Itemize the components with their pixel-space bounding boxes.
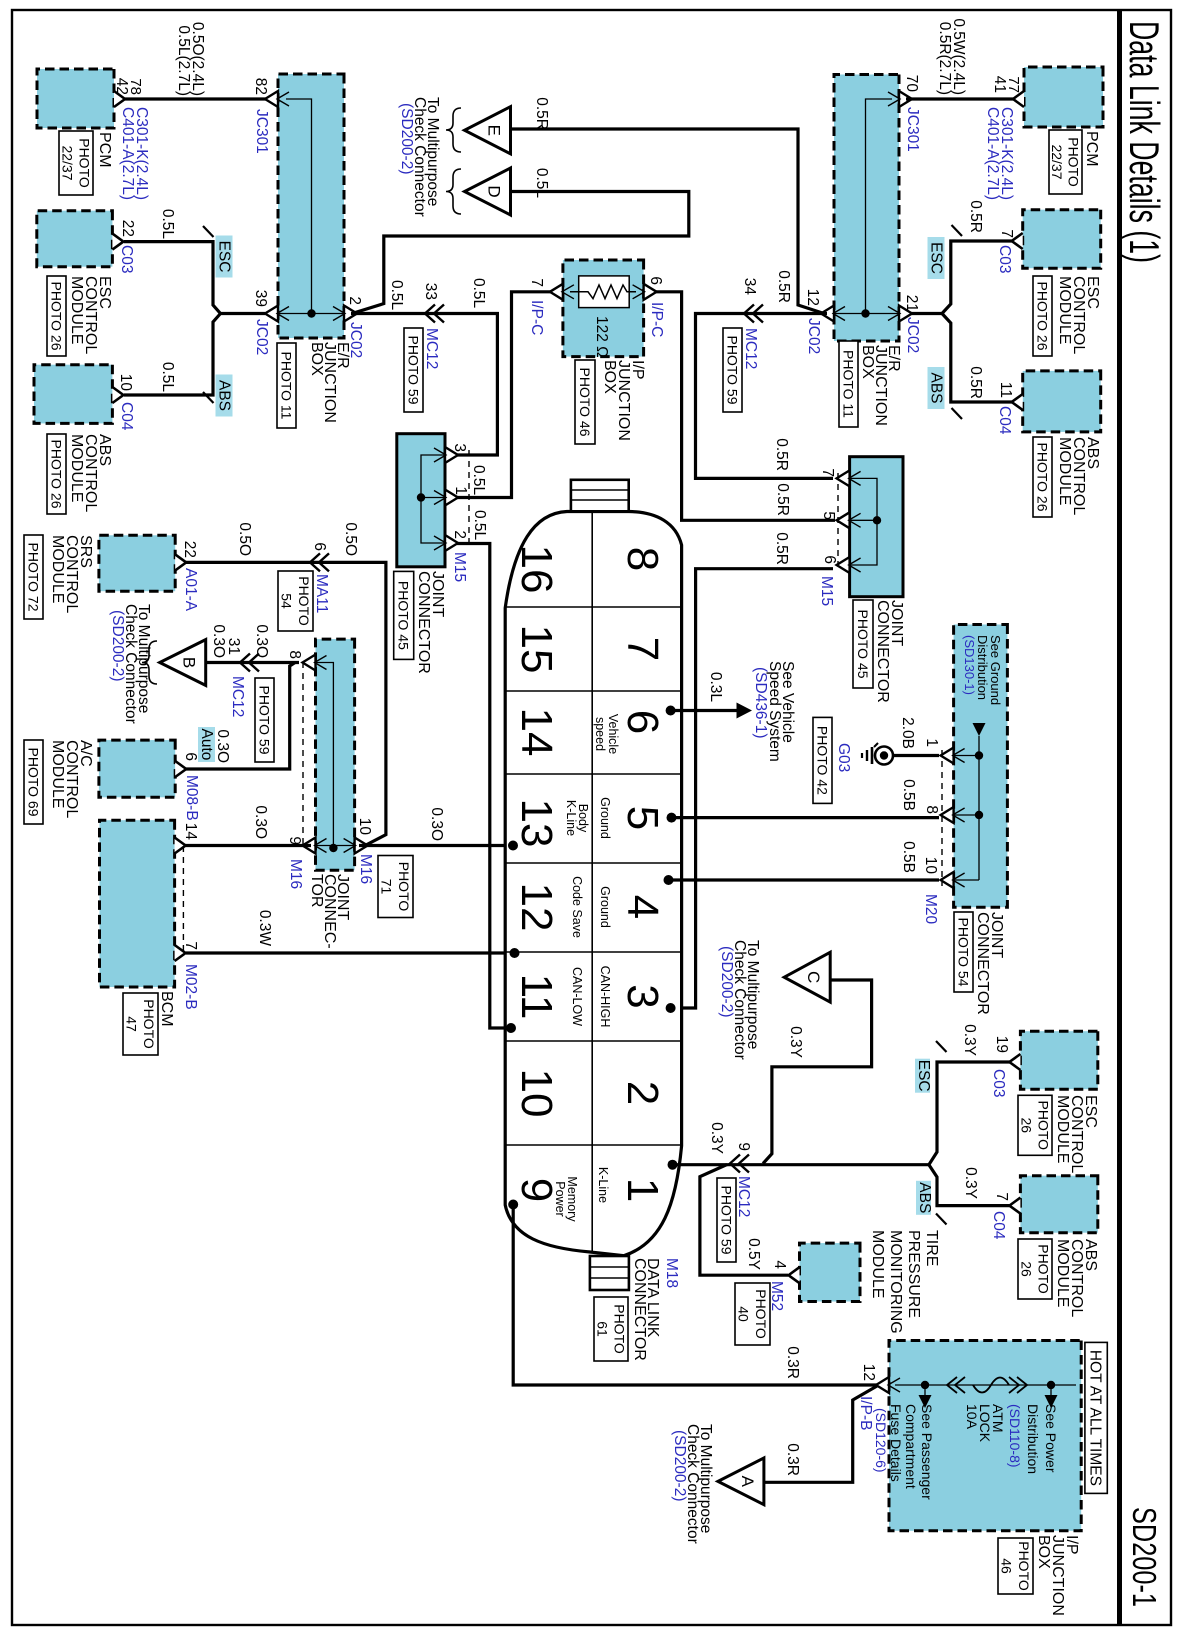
DLC left key tab (571, 480, 629, 512)
dashed tie BCM pins 14-7 (182, 846, 184, 953)
svg-text:M16: M16 (357, 854, 374, 884)
svg-text:MODULE: MODULE (68, 434, 85, 502)
E/R box left internal wiring (286, 99, 312, 314)
svg-text:BOX: BOX (859, 345, 876, 379)
svg-text:10: 10 (356, 818, 373, 836)
M20 pin 1 (941, 748, 954, 764)
svg-text:MODULE: MODULE (1056, 437, 1073, 505)
svg-text:ESC: ESC (915, 1060, 932, 1092)
label box HOT AT ALL TIMES (1085, 1342, 1107, 1493)
svg-text:21: 21 (903, 295, 920, 312)
svg-text:MC12: MC12 (735, 1176, 752, 1217)
svg-text:14: 14 (512, 708, 561, 757)
svg-text:6: 6 (311, 542, 328, 551)
svg-text:MODULE: MODULE (869, 1230, 886, 1298)
label box PHOTO 26 (ESC upper) (1033, 276, 1052, 356)
off-page triangle E (465, 107, 511, 154)
svg-text:K-Line: K-Line (596, 1167, 610, 1203)
dashed tie M16 pins 8-9 (302, 662, 304, 846)
svg-text:PRESSURE: PRESSURE (905, 1230, 922, 1318)
svg-text:70: 70 (903, 75, 920, 93)
svg-text:7: 7 (819, 468, 836, 477)
svg-text:Vehicle: Vehicle (606, 714, 620, 754)
svg-text:(SD110-8): (SD110-8) (1007, 1404, 1023, 1468)
svg-text:Ground: Ground (598, 797, 612, 839)
I/P junction box (122 ohm resistor) (563, 260, 644, 357)
svg-text:0.5L: 0.5L (159, 362, 176, 393)
svg-text:0.3Y: 0.3Y (962, 1167, 979, 1199)
svg-text:Distribution: Distribution (975, 635, 990, 700)
module ABS CONTROL MODULE (C04-7) (1020, 1176, 1097, 1233)
wire I/P-C 7 to M15L 1 (457, 292, 551, 498)
label box PHOTO 22/37 (upper) (1049, 130, 1082, 194)
label box PHOTO 69 (24, 740, 43, 824)
svg-text:6: 6 (618, 710, 667, 734)
node dot DLC pin4 (664, 875, 674, 885)
joint connector M16 (316, 639, 355, 870)
svg-text:0.3O: 0.3O (210, 624, 227, 658)
wire SRS 22 to M16 10 (0.5O) via MA11 (186, 562, 386, 845)
svg-text:M02-B: M02-B (182, 964, 199, 1010)
fuse chevrons lower (947, 1377, 965, 1393)
svg-text:Memory: Memory (565, 1176, 579, 1222)
svg-text:(SD200-2): (SD200-2) (671, 1430, 688, 1502)
svg-text:22: 22 (181, 541, 198, 558)
svg-text:0.5R: 0.5R (774, 483, 791, 516)
svg-text:JC02: JC02 (805, 318, 822, 354)
arrow see passenger compartment (919, 1395, 932, 1408)
svg-text:10: 10 (922, 857, 939, 875)
svg-text:Body: Body (576, 804, 590, 833)
svg-text:ESC: ESC (216, 241, 233, 273)
svg-text:ABS: ABS (916, 1182, 933, 1213)
svg-text:Power: Power (553, 1181, 567, 1216)
svg-text:42: 42 (113, 78, 130, 95)
svg-text:5: 5 (618, 806, 667, 830)
svg-text:33: 33 (422, 283, 439, 300)
BCM pin 7 (175, 945, 186, 961)
svg-text:PHOTO: PHOTO (141, 999, 157, 1049)
option label ESC (lower) (216, 236, 233, 278)
svg-text:MONITORING: MONITORING (887, 1230, 904, 1334)
wire DLC4 to M20-10 (670, 878, 939, 881)
svg-text:MA11: MA11 (313, 574, 330, 613)
svg-text:B: B (180, 657, 199, 668)
off-page triangle B (160, 640, 206, 686)
svg-text:39: 39 (252, 290, 269, 307)
off-page triangle A (718, 1458, 764, 1505)
svg-text:E: E (485, 125, 504, 136)
M15 upper pin 7 (837, 470, 850, 486)
brace under triangle B (142, 641, 157, 684)
label box PHOTO 26 (ABS lower) (47, 434, 66, 514)
dashed tie M15 upper pins (837, 473, 839, 571)
svg-text:26: 26 (1018, 1118, 1034, 1134)
svg-text:speed: speed (593, 717, 607, 751)
PCM upper connector pin (1013, 91, 1024, 107)
svg-text:(SD130-1): (SD130-1) (962, 635, 977, 695)
svg-text:0.3L: 0.3L (707, 672, 724, 703)
label box PHOTO 11 (right) (839, 341, 858, 427)
connector JC02 pin 2 (344, 306, 357, 322)
label box PHOTO 72 (24, 535, 43, 619)
svg-text:MC12: MC12 (423, 328, 440, 369)
M15 lower internal wiring (421, 455, 445, 543)
svg-text:0.3O: 0.3O (252, 805, 269, 839)
wire DLC5 to M20-8 (673, 816, 939, 819)
svg-text:PHOTO 26: PHOTO 26 (1034, 443, 1050, 512)
svg-text:10A: 10A (964, 1404, 980, 1430)
svg-text:22/37: 22/37 (1049, 144, 1065, 179)
svg-text:12: 12 (512, 883, 561, 932)
svg-text:M08-B: M08-B (183, 775, 200, 821)
svg-text:5: 5 (820, 511, 837, 520)
arrow see power distribution (1045, 1395, 1058, 1408)
svg-text:22: 22 (119, 220, 136, 237)
option label ESC (upper) (928, 237, 945, 279)
svg-text:47: 47 (124, 1016, 140, 1032)
ESC upper pin 7 (1012, 233, 1023, 249)
node dot DLC pin13 (508, 841, 518, 851)
BCM pin 14 (175, 838, 186, 854)
wire M16 9 to BCM 14 (185, 844, 311, 847)
brace under triangle E (446, 108, 461, 152)
svg-text:ESC: ESC (928, 242, 945, 274)
svg-text:Ground: Ground (598, 886, 612, 928)
node dot DLC pin1 (668, 1160, 678, 1170)
svg-text:26: 26 (1018, 1261, 1034, 1277)
svg-text:M15: M15 (818, 576, 835, 606)
svg-text:ABS: ABS (928, 372, 945, 403)
svg-text:PHOTO 59: PHOTO 59 (718, 1186, 734, 1255)
svg-text:CAN-HIGH: CAN-HIGH (598, 966, 612, 1028)
label box PHOTO 26 (C04-7) (1018, 1239, 1052, 1299)
label box PHOTO 61 (594, 1297, 628, 1361)
svg-text:14: 14 (182, 823, 199, 841)
svg-text:10: 10 (512, 1069, 561, 1118)
svg-text:71: 71 (379, 879, 395, 895)
svg-text:MODULE: MODULE (1054, 1239, 1071, 1307)
svg-text:0.5R: 0.5R (967, 200, 984, 233)
fuse chevrons upper (1009, 1377, 1027, 1393)
junction dot in M15 upper (873, 516, 881, 524)
module ESC CONTROL MODULE (C03-19) (1020, 1031, 1097, 1089)
svg-text:19: 19 (993, 1036, 1010, 1053)
svg-text:61: 61 (594, 1321, 610, 1337)
svg-text:6: 6 (647, 276, 664, 285)
E/R junction box (left) JC301/JC02 (278, 74, 344, 338)
M16 pin 8 (303, 655, 316, 671)
M15 lower pin 3 (445, 447, 458, 463)
svg-text:MODULE: MODULE (1054, 1095, 1071, 1163)
svg-text:Compartment: Compartment (903, 1404, 919, 1489)
arrow into ground distribution (973, 723, 986, 736)
svg-text:BOX: BOX (1035, 1535, 1052, 1569)
svg-text:0.3O: 0.3O (428, 807, 445, 841)
svg-text:41: 41 (991, 76, 1008, 93)
svg-text:C: C (804, 971, 823, 983)
junction dot M20 pin1 (975, 751, 983, 759)
connector I/P-C pin 7 (550, 284, 563, 300)
junction dot M20 pin8 (975, 811, 983, 819)
variant slash ESC lower (203, 226, 214, 237)
svg-text:PCM: PCM (1083, 131, 1100, 167)
svg-text:See Passenger: See Passenger (919, 1404, 935, 1500)
svg-text:0.5R: 0.5R (775, 270, 792, 303)
M15 upper internal wiring (850, 478, 877, 565)
module PCM (upper) (1024, 67, 1103, 127)
svg-text:PHOTO 54: PHOTO 54 (955, 918, 971, 987)
module PCM (lower) (37, 69, 114, 128)
M16 internal wiring (316, 663, 334, 846)
ESC lower pin 22 (112, 234, 123, 250)
connector JC301 pin 70 (899, 91, 912, 107)
svg-text:8: 8 (286, 650, 303, 659)
svg-text:46: 46 (999, 1558, 1015, 1574)
junction dot in E/R left box (307, 309, 315, 317)
svg-text:PHOTO 26: PHOTO 26 (48, 282, 64, 351)
junction dot in M16 (329, 844, 337, 852)
svg-text:31: 31 (225, 638, 242, 655)
resistor 122ohm (579, 276, 630, 308)
svg-text:MODULE: MODULE (49, 740, 66, 808)
arrowhead vehicle speed (737, 703, 753, 719)
svg-text:9: 9 (735, 1142, 752, 1151)
connector JC301 pin 82 (265, 91, 278, 107)
svg-text:PHOTO 69: PHOTO 69 (25, 748, 41, 817)
junction dot fuse top (1047, 1381, 1055, 1389)
option label Auto (198, 727, 215, 762)
svg-text:PHOTO: PHOTO (76, 138, 92, 188)
brace under triangle D (446, 169, 461, 214)
svg-text:PHOTO: PHOTO (753, 1289, 769, 1339)
svg-text:SD200-1: SD200-1 (1126, 1507, 1163, 1607)
svg-text:CONNECTOR: CONNECTOR (974, 912, 991, 1015)
svg-text:PHOTO: PHOTO (1016, 1541, 1032, 1591)
ESC pin 19 (1009, 1054, 1020, 1070)
connector I/P-C pin 6 (644, 284, 657, 300)
connector JC02 pin 12 (821, 306, 834, 322)
svg-text:122 Ω: 122 Ω (593, 316, 610, 358)
svg-text:1: 1 (452, 486, 469, 495)
svg-text:TIRE: TIRE (923, 1230, 940, 1266)
svg-text:12: 12 (804, 289, 821, 306)
in-line connector MA11 pin 6 (310, 553, 329, 571)
svg-text:PHOTO 26: PHOTO 26 (48, 440, 64, 509)
wire M16 10 to DLC pin13 (359, 844, 513, 847)
label box PHOTO 59 (MC12-34) (723, 328, 742, 412)
svg-text:6: 6 (182, 752, 199, 761)
variant slash ESC upper (952, 225, 963, 236)
wire JC02 12 to M15 7 (0.5R) via MC12 34 (696, 314, 834, 479)
I/P junction box (fuse ATM LOCK 10A) (889, 1341, 1081, 1531)
svg-text:13: 13 (512, 799, 561, 848)
svg-text:A: A (738, 1476, 757, 1488)
junction dot fuse bottom (921, 1381, 929, 1389)
svg-text:I/P-C: I/P-C (648, 302, 665, 337)
wire M15 2 to DLC pin11 (457, 544, 511, 1029)
svg-text:PHOTO: PHOTO (1035, 1244, 1051, 1294)
svg-text:0.5L: 0.5L (388, 280, 405, 311)
svg-text:40: 40 (736, 1306, 752, 1322)
svg-text:82: 82 (252, 78, 269, 95)
wire BCM 7 to DLC pin12 (186, 951, 513, 954)
M52 pin 4 (789, 1267, 800, 1283)
svg-text:0.5L: 0.5L (470, 465, 487, 496)
off-page triangle D (465, 168, 511, 215)
svg-text:C04: C04 (990, 1211, 1007, 1240)
svg-text:JC301: JC301 (904, 107, 921, 152)
option label ABS (upper) (928, 367, 945, 409)
svg-text:JC02: JC02 (904, 317, 921, 353)
svg-text:PHOTO 45: PHOTO 45 (396, 581, 412, 650)
module ESC CONTROL MODULE (lower) (37, 211, 113, 267)
svg-text:C03: C03 (990, 1069, 1007, 1097)
dashed tie M20 pins (941, 750, 943, 886)
E/R box right internal wiring (866, 99, 893, 314)
option label ABS (lower) (216, 375, 233, 417)
svg-text:4: 4 (618, 895, 667, 919)
wire A/C 6 to M16 8 (0.3O) (186, 663, 295, 770)
option label ABS (C04) (916, 1181, 931, 1215)
node dot DLC pin6 (666, 706, 676, 716)
svg-text:C401-A(2.7L): C401-A(2.7L) (984, 107, 1001, 200)
option label ESC (C03) (915, 1059, 930, 1093)
variant slash ABS lower (203, 392, 214, 403)
svg-text:0.5L: 0.5L (471, 510, 488, 541)
DLC row divider (591, 512, 593, 1253)
svg-text:3: 3 (618, 984, 667, 1008)
svg-text:Fuse Details: Fuse Details (888, 1404, 904, 1482)
wire K-line to ABS C04 7 (929, 1165, 1011, 1206)
title separator thick line (1117, 10, 1122, 1625)
joint connector M15 (upper) (850, 457, 903, 597)
svg-text:0.5Y: 0.5Y (745, 1238, 762, 1270)
svg-text:Code Save: Code Save (570, 876, 584, 938)
M20 pin 10 (941, 872, 954, 888)
svg-text:0.5R: 0.5R (773, 438, 790, 471)
label box PHOTO 59 (MC12-31) (255, 678, 274, 762)
in-line connector MC12 pin 33 (425, 305, 444, 323)
svg-text:0.5L: 0.5L (533, 168, 550, 199)
module A/C CONTROL MODULE (99, 740, 175, 797)
M15 upper pin 5 (837, 512, 850, 528)
svg-text:15: 15 (512, 625, 561, 674)
svg-text:(SD120-6): (SD120-6) (873, 1408, 889, 1473)
M20 internal wiring (978, 736, 980, 880)
svg-text:12: 12 (860, 1364, 877, 1381)
svg-text:TOR: TOR (308, 874, 325, 907)
wire to TPMS M52 pin 4 (700, 1165, 788, 1276)
svg-text:0.5O: 0.5O (236, 522, 253, 556)
svg-text:7: 7 (528, 278, 545, 287)
label box PHOTO 47 (123, 993, 158, 1055)
svg-text:0.3O: 0.3O (214, 729, 231, 763)
svg-text:BOX: BOX (601, 360, 618, 394)
svg-text:MODULE: MODULE (49, 535, 66, 603)
svg-text:PHOTO 59: PHOTO 59 (405, 336, 421, 405)
wire JC02 2 to M15 3 (0.5L) via MC12 33 (351, 314, 497, 456)
svg-text:4: 4 (771, 1260, 788, 1269)
DLC right key tab (590, 1256, 629, 1290)
M15 lower pin 2 (445, 535, 458, 551)
label box PHOTO 26 (C03-19) (1018, 1095, 1052, 1155)
in-line connector MC12 pin 34 (744, 305, 763, 323)
connector I/P-B pin 12 (876, 1377, 889, 1393)
wire memory power to fuse (513, 1205, 878, 1386)
label box PHOTO 11 (left) (277, 343, 296, 428)
svg-text:M16: M16 (287, 859, 304, 889)
svg-text:G03: G03 (835, 743, 852, 772)
svg-text:0.3Y: 0.3Y (961, 1024, 978, 1056)
svg-text:16: 16 (512, 545, 561, 594)
svg-text:PHOTO 26: PHOTO 26 (1034, 282, 1050, 351)
wire M15 6 to DLC pin3 (671, 569, 833, 1008)
svg-text:A01-A: A01-A (182, 568, 199, 612)
svg-text:CONNECTOR: CONNECTOR (874, 600, 891, 703)
A/C pin 6 (175, 761, 186, 777)
svg-text:PHOTO 42: PHOTO 42 (814, 726, 830, 795)
svg-text:0.5R: 0.5R (773, 532, 790, 565)
fuse element ATM LOCK 10A (973, 1378, 1009, 1393)
label box PHOTO 22/37 (lower) (59, 131, 93, 195)
wire B to M16 8 (0.3O) via MC12 31 (206, 661, 299, 664)
wire I/P-C 6 to M15R 5 (656, 292, 835, 521)
svg-text:M18: M18 (663, 1258, 680, 1288)
svg-text:8: 8 (923, 805, 940, 814)
label box PHOTO 45 (M15 upper) (853, 600, 873, 688)
svg-text:10: 10 (117, 374, 134, 392)
svg-text:BOX: BOX (308, 342, 325, 376)
svg-text:D: D (485, 185, 504, 197)
variant slash ESC (C03-19) (936, 1041, 947, 1052)
svg-text:8: 8 (618, 547, 667, 571)
svg-text:PHOTO: PHOTO (296, 576, 312, 626)
M20 pin 8 (941, 807, 954, 823)
svg-text:0.5O: 0.5O (342, 522, 359, 556)
joint connector M20 (See Ground Distribution) (954, 625, 1008, 908)
wire ESC 7 to JC02 21 (0.5R) (911, 241, 1012, 314)
junction dot in M15 lower (417, 493, 425, 501)
svg-text:2: 2 (618, 1081, 667, 1105)
module TIRE PRESSURE MONITORING MODULE M52 (800, 1243, 861, 1301)
svg-text:JC301: JC301 (253, 109, 270, 154)
connector JC02 pin 21 (899, 306, 912, 322)
svg-text:I/P-C: I/P-C (528, 300, 545, 335)
svg-text:PCM: PCM (96, 132, 113, 168)
label box PHOTO 59 (MC12-33) (404, 328, 423, 412)
wire to triangle A (764, 1386, 877, 1482)
svg-text:54: 54 (279, 593, 295, 609)
junction dot in E/R right box (861, 309, 869, 317)
svg-text:K-Line: K-Line (564, 800, 578, 836)
connector JC02 pin 39 (265, 306, 278, 322)
joint connector M15 (lower) (397, 434, 445, 567)
svg-text:9: 9 (286, 836, 303, 845)
svg-text:(SD200-2): (SD200-2) (718, 946, 735, 1018)
svg-text:0.3R: 0.3R (784, 1443, 801, 1476)
svg-text:M20: M20 (922, 894, 939, 925)
DLC cell dividers (505, 606, 681, 608)
DLC connector M18 outline (505, 512, 681, 1256)
svg-text:PHOTO 72: PHOTO 72 (25, 543, 41, 612)
M16 pin 10 (355, 838, 368, 854)
label box PHOTO 54 (M20) (954, 912, 973, 992)
svg-text:CONNECTOR: CONNECTOR (631, 1258, 648, 1361)
svg-text:PHOTO: PHOTO (611, 1304, 627, 1354)
svg-text:0.3R: 0.3R (784, 1346, 801, 1379)
svg-text:(SD200-2): (SD200-2) (398, 103, 415, 175)
